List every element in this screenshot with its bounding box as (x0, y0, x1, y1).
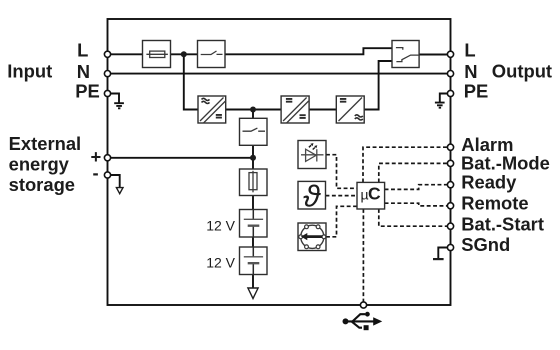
svg-text:Output: Output (492, 60, 552, 81)
svg-text:storage: storage (9, 174, 75, 195)
svg-text:External: External (9, 133, 82, 154)
svg-text:N: N (77, 61, 90, 82)
svg-text:Input: Input (7, 60, 52, 81)
svg-text:ϑ: ϑ (303, 179, 321, 214)
svg-text:12 V: 12 V (206, 217, 235, 233)
svg-text:PE: PE (75, 81, 100, 102)
svg-text:C: C (368, 184, 381, 204)
svg-text:SGnd: SGnd (461, 234, 510, 255)
svg-text:Ready: Ready (461, 171, 517, 192)
svg-text:12 V: 12 V (206, 255, 235, 271)
svg-text:L: L (77, 40, 88, 61)
svg-text:L: L (464, 40, 475, 61)
svg-text:Bat.-Start: Bat.-Start (461, 213, 544, 234)
svg-text:-: - (93, 162, 99, 183)
svg-text:N: N (464, 61, 477, 82)
svg-text:PE: PE (464, 81, 489, 102)
svg-text:Bat.-Mode: Bat.-Mode (461, 152, 550, 173)
svg-text:energy: energy (9, 154, 70, 175)
svg-text:Remote: Remote (461, 192, 528, 213)
